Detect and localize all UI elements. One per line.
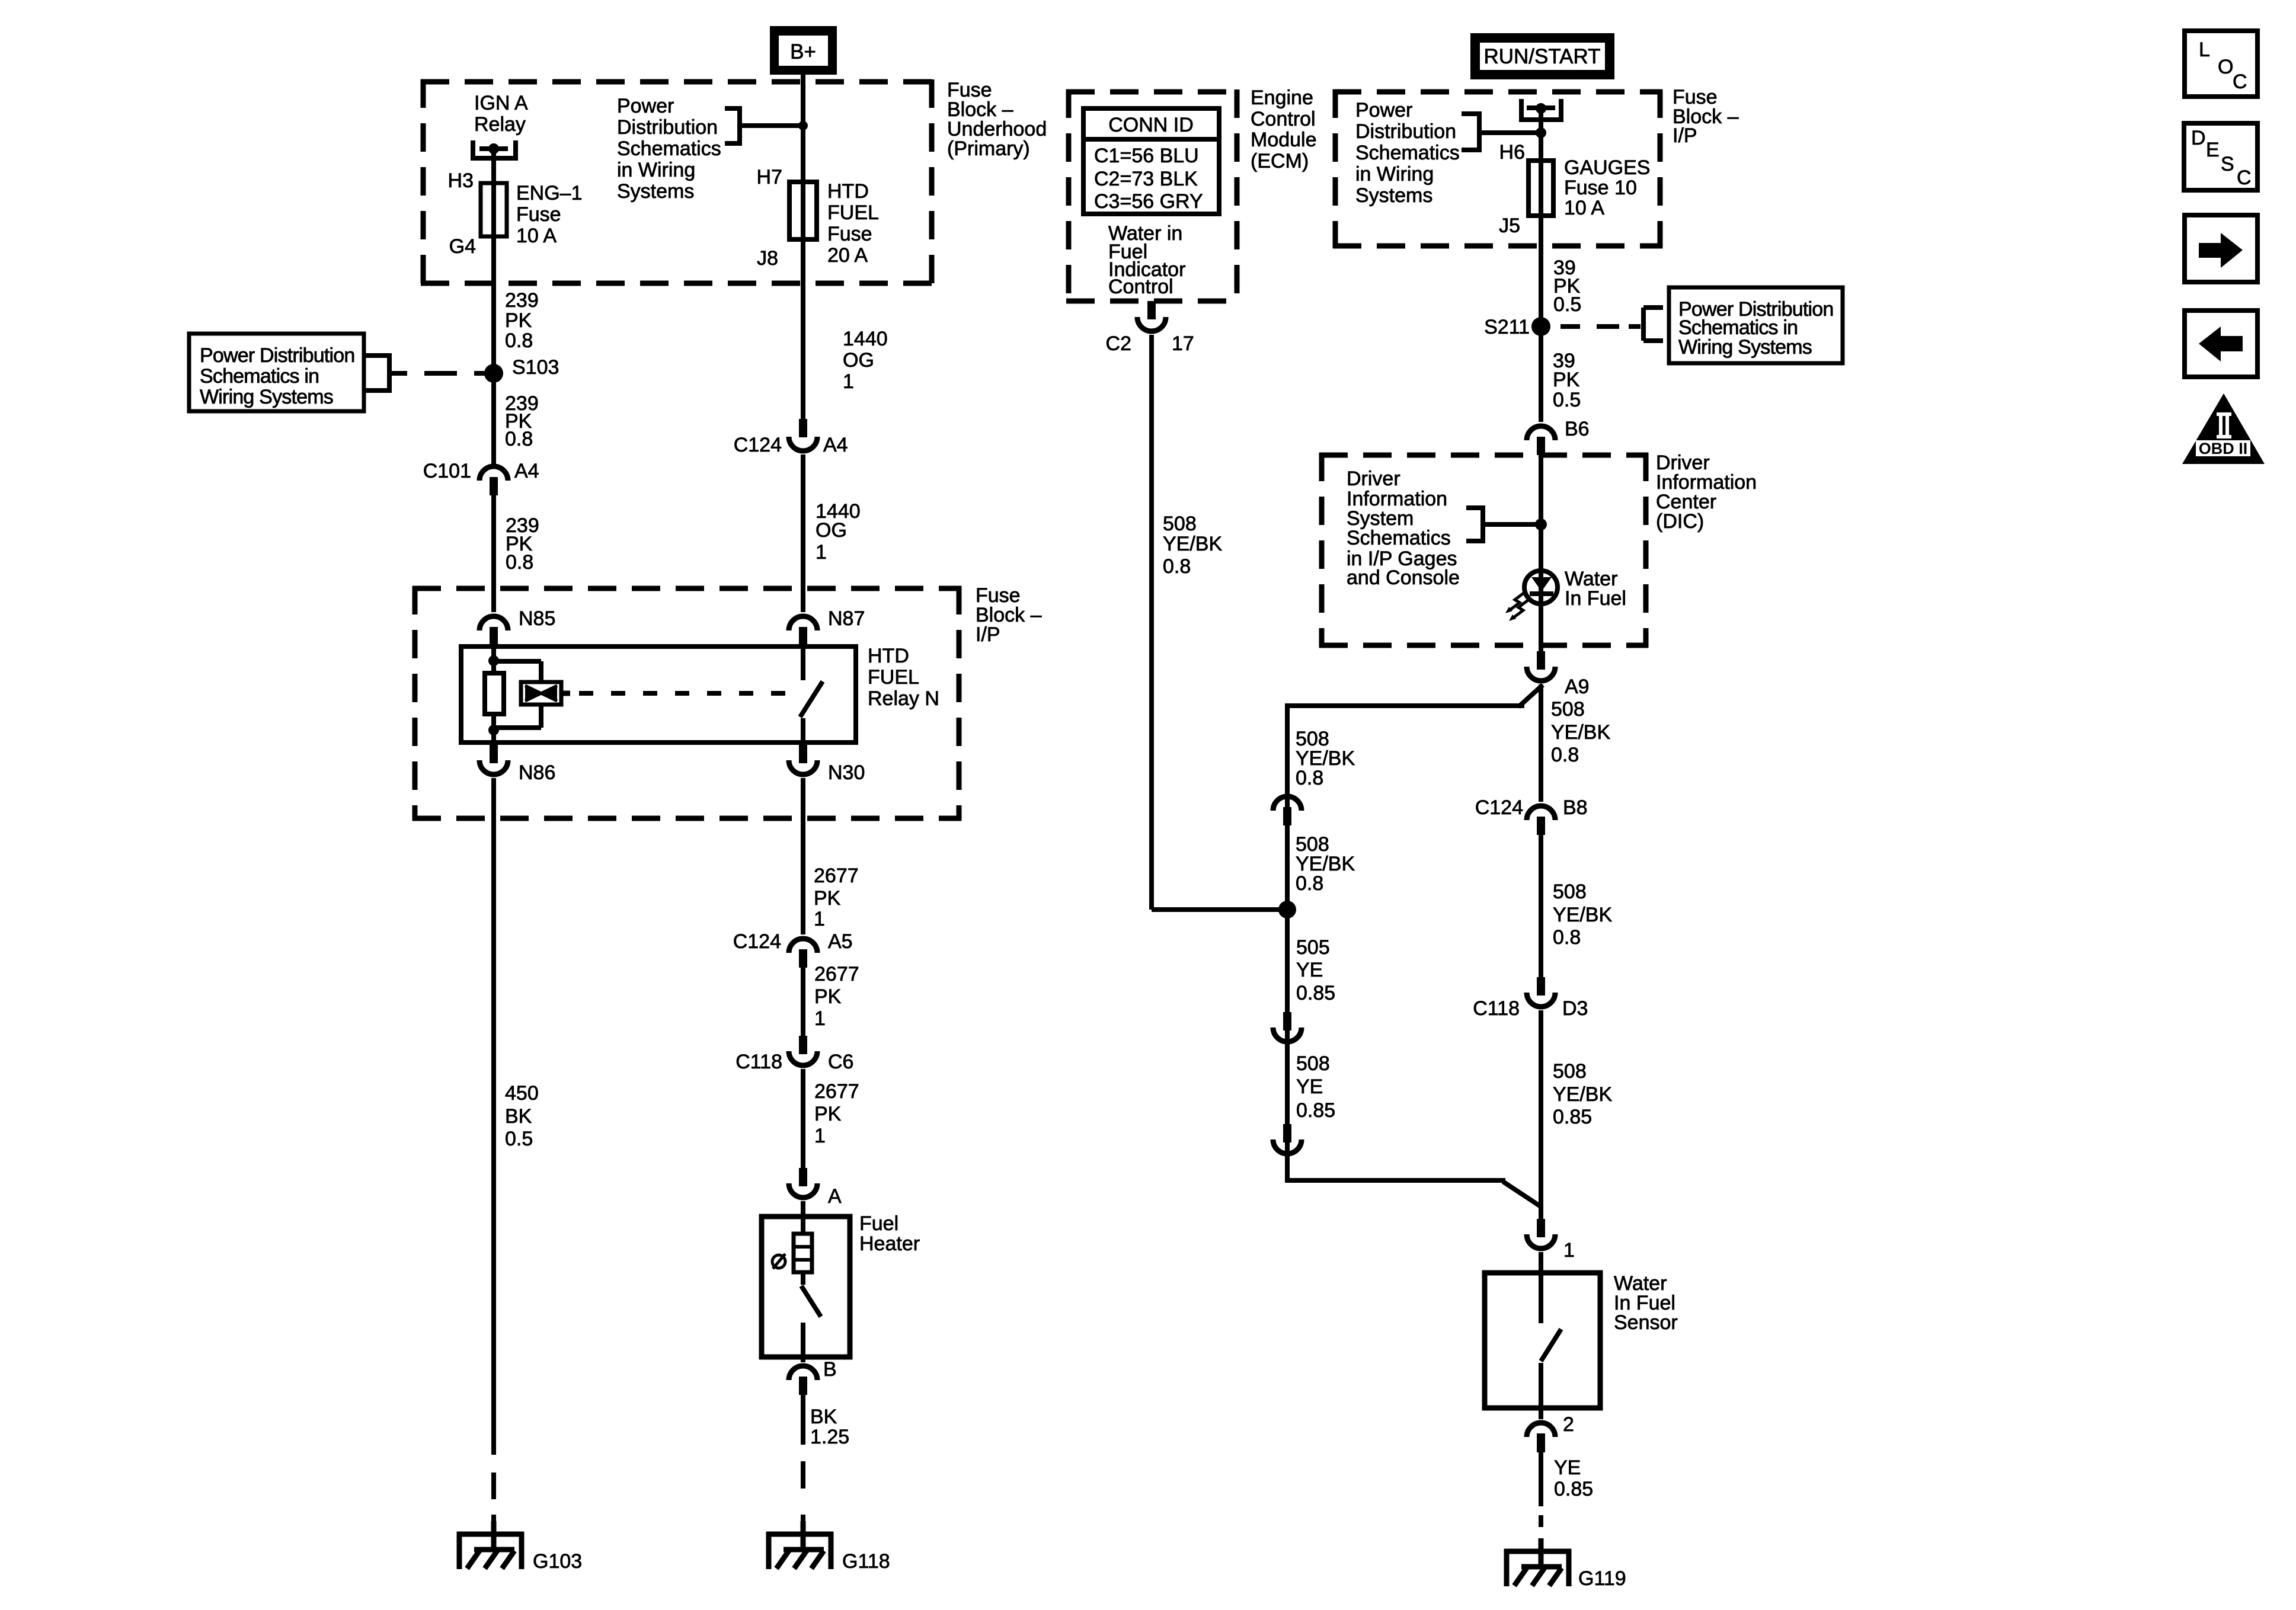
bracket at right Power Distribution box [1641,308,1646,341]
svg-text:and Console: and Console [1347,566,1460,589]
svg-text:0.8: 0.8 [1296,872,1323,895]
LED light arrows [1510,593,1524,610]
junction dot on IGN A relay feed [488,143,499,154]
svg-text:YE/BK: YE/BK [1551,721,1610,744]
svg-text:Fuel: Fuel [859,1212,898,1235]
connector sensor pin 1 (stub and cup) [1537,1219,1545,1237]
svg-text:G103: G103 [533,1550,582,1573]
svg-text:C2=73 BLK: C2=73 BLK [1094,168,1198,190]
svg-text:Fuse: Fuse [516,203,561,226]
svg-text:S103: S103 [512,356,559,379]
svg-text:S211: S211 [1484,316,1530,338]
svg-text:508: 508 [1553,1060,1587,1083]
svg-text:J5: J5 [1499,215,1520,237]
power feed RUN/START box [1470,33,1614,79]
suppression diode (bowtie) in relay [521,682,561,705]
svg-text:H7: H7 [757,166,782,188]
svg-text:PK: PK [1553,369,1580,391]
svg-text:YE: YE [1296,1076,1323,1098]
svg-text:YE/BK: YE/BK [1553,904,1612,926]
svg-text:1: 1 [843,370,854,393]
svg-text:Relay N: Relay N [868,687,939,710]
junction dot relay bottom [488,725,499,735]
svg-text:ENG–1: ENG–1 [516,182,583,204]
fuel heater thermal symbol (circle with slash) [772,1255,785,1268]
wire; D3 down to sensor pin 1 [1539,1010,1543,1206]
svg-text:OBD II: OBD II [2199,440,2248,457]
junction dot relay top [488,655,499,666]
sensor switch wire from top [1539,1273,1543,1323]
sensor switch blade [1541,1329,1561,1361]
connector C124 pin A5 (dome and stub) [789,939,817,953]
svg-text:PK: PK [814,1103,842,1125]
svg-text:in Wiring: in Wiring [1355,163,1434,185]
junction dot below RUN/START feed [1536,127,1546,138]
left box: Power Distribution Schematics in Wiring Systems [189,334,364,411]
svg-text:508: 508 [1553,881,1587,903]
svg-text:D: D [2191,127,2206,149]
connector C124 pin B8 (dome and stub) [1527,806,1555,820]
svg-text:I/P: I/P [1673,124,1697,147]
LOC key box [2185,31,2257,97]
svg-text:1440: 1440 [843,328,888,350]
svg-text:BK: BK [810,1406,837,1428]
connector A9 out of DIC (stub and cup) [1537,651,1545,670]
connector C118 pin C6 (stub and cup) [799,1036,807,1054]
svg-text:Systems: Systems [1355,184,1432,207]
svg-text:I/P: I/P [976,623,1000,646]
svg-text:0.5: 0.5 [505,1128,533,1150]
junction dot in DIC [1535,518,1547,530]
svg-text:HTD: HTD [827,180,869,203]
svg-text:YE: YE [1554,1457,1581,1479]
dashed leader from S211 to Power Distribution box [1560,324,1580,329]
svg-text:Module: Module [1251,129,1317,151]
wire; bottom run to water in fuel sensor [1285,1157,1290,1183]
svg-text:Heater: Heater [859,1233,920,1255]
svg-text:RUN/START: RUN/START [1483,45,1600,68]
svg-text:C118: C118 [1473,997,1520,1020]
svg-text:C124: C124 [1475,796,1523,819]
relay coil (winding) [485,673,504,714]
svg-text:in Wiring: in Wiring [617,159,695,181]
ground G118 [766,1532,833,1537]
bracket from DIS text to wire [1466,505,1483,510]
wire; diagonal branch from A9 to 508 branch [1518,685,1543,707]
svg-text:N85: N85 [519,607,555,630]
svg-text:Distribution: Distribution [1355,120,1456,143]
wire; horizontal to 508 YE/BK branch [1287,703,1524,708]
right box: Power Distribution Schematics in Wiring Systems [1669,287,1843,363]
svg-text:BK: BK [505,1105,532,1128]
connector ECM C2 pin 17 (stub and cup) [1147,301,1156,319]
junction dot below B+ [798,121,808,130]
svg-text:Systems: Systems [617,180,694,203]
dashed box: Driver Information Center (DIC) [1319,453,1648,458]
svg-text:OG: OG [816,519,847,542]
svg-text:Engine: Engine [1251,87,1313,109]
ground G103 [457,1532,524,1537]
svg-text:N86: N86 [519,761,555,784]
svg-text:C124: C124 [734,434,782,456]
wire coil bottom to relay box bottom [491,714,496,742]
svg-text:0.85: 0.85 [1296,1099,1335,1122]
ground G119 [1504,1549,1571,1554]
svg-text:B6: B6 [1565,418,1590,440]
fuel heater element [794,1234,812,1272]
relay feed bracket for RUN/START [1519,99,1524,117]
connector fuel heater pin A (stub and cup) [799,1168,807,1186]
svg-text:Sensor: Sensor [1614,1311,1678,1334]
svg-text:Schematics: Schematics [1355,142,1460,164]
dashed wire above G103 [491,1473,496,1499]
connector C101 pin A4 (dome and stub) [479,466,508,481]
dashed box: Fuse Block - I/P (left) [412,586,961,591]
connector C124 pin A4 (stub and cup) [799,419,807,437]
svg-text:B+: B+ [790,40,816,63]
wire; fuel heater pin B [801,1357,805,1362]
svg-text:0.5: 0.5 [1553,389,1581,411]
forward arrow key box [2185,215,2257,282]
svg-text:PK: PK [814,985,842,1008]
fuel heater switch blade [801,1286,821,1317]
wire; A5 to C118 C6 [801,968,805,1036]
svg-text:G118: G118 [842,1550,890,1573]
svg-text:O: O [2218,56,2233,78]
component box Water In Fuel Sensor [1485,1273,1600,1408]
svg-text:C6: C6 [828,1051,853,1073]
svg-text:0.85: 0.85 [1553,1106,1592,1128]
relay switch blade [800,681,823,717]
svg-text:A: A [828,1185,842,1208]
wire parallel branch to suppression element [494,659,541,664]
relay feed bracket for IGN A Relay [471,140,475,156]
svg-text:(ECM): (ECM) [1251,150,1309,172]
fuse GAUGES 10A [1528,161,1553,216]
svg-text:0.85: 0.85 [1296,982,1335,1004]
power distribution bracket and wire to B+ junction [725,106,740,111]
fuse HTD FUEL 20A [789,182,817,239]
svg-text:OG: OG [843,349,874,372]
svg-text:C1=56 BLU: C1=56 BLU [1094,145,1199,167]
fuel heater switch wire below element [801,1272,805,1285]
wire; ECM pin 17 down (508 YE/BK) [1149,335,1154,910]
svg-text:C3=56 GRY: C3=56 GRY [1094,190,1203,213]
fuse ENG-1 10A [481,183,507,236]
back arrow key box [2185,311,2257,377]
svg-text:2: 2 [1563,1413,1574,1436]
svg-text:10 A: 10 A [516,225,557,247]
wire; branch down left column [1285,703,1290,1013]
CONN ID table box [1083,108,1219,214]
svg-text:G119: G119 [1578,1567,1626,1590]
svg-text:C124: C124 [733,930,781,953]
svg-text:2677: 2677 [814,1080,859,1103]
dashed box: Fuse Block - I/P (right) [1333,89,1662,95]
svg-text:Wiring Systems: Wiring Systems [1678,336,1812,359]
OBD II triangle symbol [2182,393,2265,464]
svg-text:Fuse 10: Fuse 10 [1564,177,1637,199]
inline connector pair 1 below splice (stub and cup) [1283,1012,1291,1030]
svg-text:0.8: 0.8 [505,428,533,450]
svg-text:HTD: HTD [868,645,909,667]
bracket and dashed leader to S103 [364,353,389,358]
svg-text:1: 1 [814,1007,826,1030]
wire; C124 A4 down to N87 [801,454,805,612]
wire; pin 1 into sensor box [1539,1252,1543,1273]
svg-text:PK: PK [505,309,532,332]
svg-text:E: E [2206,139,2220,161]
svg-text:In Fuel: In Fuel [1565,587,1626,610]
fuel heater lower contact wire [801,1323,805,1357]
svg-text:IGN A: IGN A [474,92,528,114]
relay switch wire to N30 [801,718,805,742]
splice S211 [1531,317,1550,336]
svg-text:1: 1 [1563,1239,1575,1262]
svg-text:Relay: Relay [474,113,526,136]
svg-text:A5: A5 [828,930,853,953]
svg-text:Power Distribution: Power Distribution [200,344,355,367]
svg-text:505: 505 [1296,936,1330,959]
relay switch contact (top) [801,646,805,680]
svg-text:YE: YE [1296,959,1323,981]
wire inside relay from N85 to coil [491,646,496,676]
relay box HTD FUEL Relay N [461,646,856,742]
svg-text:C: C [2233,71,2247,93]
svg-text:508: 508 [1296,1052,1330,1075]
svg-text:0.8: 0.8 [1163,555,1191,578]
DESC key box [2184,123,2257,190]
svg-text:(DIC): (DIC) [1656,510,1704,533]
svg-text:10 A: 10 A [1564,197,1604,219]
svg-text:C: C [2237,167,2252,189]
svg-text:C2: C2 [1106,332,1131,355]
wire; N86 down to G103 (450 BK) [491,778,496,1455]
dashed box: Engine Control Module (ECM) [1066,89,1239,95]
svg-text:A9: A9 [1565,676,1590,698]
wire; C101 to N85 [491,495,496,612]
svg-text:Schematics: Schematics [617,137,721,160]
svg-text:C118: C118 [736,1051,782,1073]
wire; B+ feed wire down through Fuse Block - Underhood to C124 A4 [801,71,805,422]
svg-text:1: 1 [814,908,825,930]
svg-text:0.8: 0.8 [505,329,533,352]
svg-text:Control: Control [1108,276,1173,298]
svg-text:FUEL: FUEL [868,666,919,689]
svg-text:A4: A4 [823,434,848,456]
svg-text:2677: 2677 [814,865,859,887]
wire; IGN A relay feed down to ENG-1 fuse and S103 [491,149,496,465]
svg-text:GAUGES: GAUGES [1564,156,1650,179]
wire; B8 to C118 D3 [1539,830,1543,978]
svg-text:0.8: 0.8 [506,551,533,574]
svg-text:H3: H3 [448,169,474,192]
svg-text:B8: B8 [1563,796,1588,819]
svg-text:N87: N87 [828,607,865,630]
svg-text:Fuse: Fuse [827,223,872,245]
connector N85 into fuse block (dome and stub) [479,616,508,630]
wire stub right of bowtie [561,691,570,696]
svg-text:A4: A4 [514,460,539,482]
svg-text:CONN ID: CONN ID [1108,114,1194,136]
wire; sensor pin 2 [1539,1408,1543,1419]
svg-text:0.5: 0.5 [1553,293,1581,316]
component box Fuel Heater [762,1217,850,1357]
dashed wire above G118 [801,1461,805,1489]
inline connector on branch (dome and stub) [1273,796,1302,811]
wire; pin 2 down (YE 0.85) [1539,1452,1543,1506]
svg-text:Wiring Systems: Wiring Systems [200,386,333,408]
svg-text:YE/BK: YE/BK [1553,1083,1612,1106]
connector C118 pin D3 (stub and cup) [1537,977,1545,996]
connector N87 into fuse block (dome and stub) [789,616,817,630]
svg-text:1.25: 1.25 [810,1426,849,1448]
wire inside DIC from B6 to A9 [1539,455,1543,652]
connector fuel heater pin B (dome and stub) [789,1366,817,1380]
connector N86 out of fuse block (stub and cup) [490,745,498,763]
svg-text:0.8: 0.8 [1296,767,1323,789]
svg-text:L: L [2199,39,2210,61]
svg-text:B: B [823,1358,837,1381]
svg-text:17: 17 [1172,332,1194,355]
wire; A9 down to C124 B8 [1539,684,1543,802]
svg-text:450: 450 [505,1082,539,1105]
svg-text:G4: G4 [449,235,476,258]
svg-text:N30: N30 [828,761,865,784]
splice of ECM wire and branch [1278,901,1296,918]
dashed box: Fuse Block - Underhood (Primary) [421,79,934,85]
wire; splice down to sensor feed [1285,910,1290,1180]
svg-text:508: 508 [1163,513,1197,535]
wire; pin B down (BK 1.25) [801,1395,805,1445]
svg-text:Control: Control [1251,108,1316,130]
wire; ECM wire to splice [1152,907,1287,912]
svg-text:Power: Power [617,95,674,117]
svg-text:H6: H6 [1499,141,1525,164]
wire; C6 to fuel heater pin A [801,1069,805,1169]
svg-text:FUEL: FUEL [827,201,879,224]
svg-text:1: 1 [814,1125,826,1147]
svg-text:Schematics: Schematics [1347,527,1451,549]
svg-text:508: 508 [1551,698,1585,721]
wire; RUN/START feed down through GAUGES fuse to B6 [1539,108,1543,422]
sensor switch lower wire [1539,1363,1543,1408]
svg-text:2677: 2677 [814,963,859,985]
svg-text:D3: D3 [1562,997,1588,1020]
svg-text:20 A: 20 A [827,244,868,267]
wire; N30 down to C124 A5 (2677 PK) [801,778,805,934]
svg-text:Power: Power [1355,99,1412,121]
svg-text:Schematics in: Schematics in [200,365,319,388]
connector sensor pin 2 (dome and stub) [1527,1423,1555,1437]
wire; pin A to fuel heater box [801,1201,805,1234]
svg-text:S: S [2221,153,2234,175]
splice S103 [484,364,503,383]
svg-text:239: 239 [505,289,539,312]
svg-text:Driver: Driver [1347,468,1400,490]
svg-text:PK: PK [814,887,841,910]
svg-text:YE/BK: YE/BK [1163,533,1222,555]
bracket from Power Distribution text to RUN/START feed [1462,111,1479,116]
svg-text:0.85: 0.85 [1554,1478,1593,1500]
connector B6 into DIC (dome and stub) [1527,426,1555,440]
dashed wire above G119 [1539,1515,1543,1527]
svg-text:1: 1 [816,541,827,564]
svg-text:0.8: 0.8 [1553,926,1581,949]
junction dot on RUN/START feed [1536,103,1546,114]
power feed B+ box [770,26,837,75]
svg-text:J8: J8 [757,247,778,270]
indicator LED Water In Fuel [1524,571,1558,604]
svg-text:Distribution: Distribution [617,116,718,139]
connector N30 out of fuse block (stub and cup) [799,745,807,763]
svg-text:0.8: 0.8 [1551,744,1579,766]
dashed actuation line from coil to relay switch [579,691,797,696]
svg-text:(Primary): (Primary) [947,137,1030,160]
inline connector pair 2 (stub and cup) [1283,1124,1291,1142]
svg-text:C101: C101 [423,460,471,482]
